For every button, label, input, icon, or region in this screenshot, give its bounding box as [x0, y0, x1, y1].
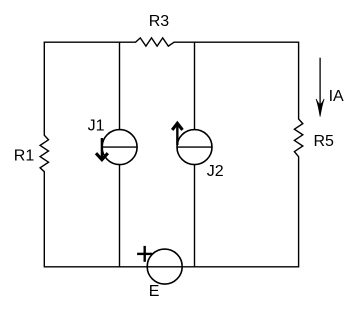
- voltage source E plus sign: [137, 246, 152, 262]
- svg-text:IA: IA: [329, 88, 344, 105]
- wire J1 branch: [119, 42, 121, 267]
- wire J2 branch: [194, 42, 196, 267]
- current arrow IA: [316, 58, 324, 117]
- svg-text:E: E: [149, 283, 160, 300]
- current source J2 chord: [177, 146, 212, 148]
- svg-text:J1: J1: [88, 118, 105, 135]
- svg-text:R5: R5: [314, 133, 335, 150]
- svg-text:J2: J2: [207, 163, 224, 180]
- current source J1: [102, 130, 137, 165]
- current source J2: [177, 130, 212, 165]
- outer loop with resistors R3 R5 R1: [40, 38, 303, 267]
- voltage source E: [147, 249, 182, 284]
- current source J2 arrow: [172, 123, 182, 145]
- svg-text:R1: R1: [14, 148, 35, 165]
- current source J1 chord: [102, 146, 137, 148]
- current source J1 arrow: [96, 138, 108, 160]
- svg-text:R3: R3: [149, 13, 170, 30]
